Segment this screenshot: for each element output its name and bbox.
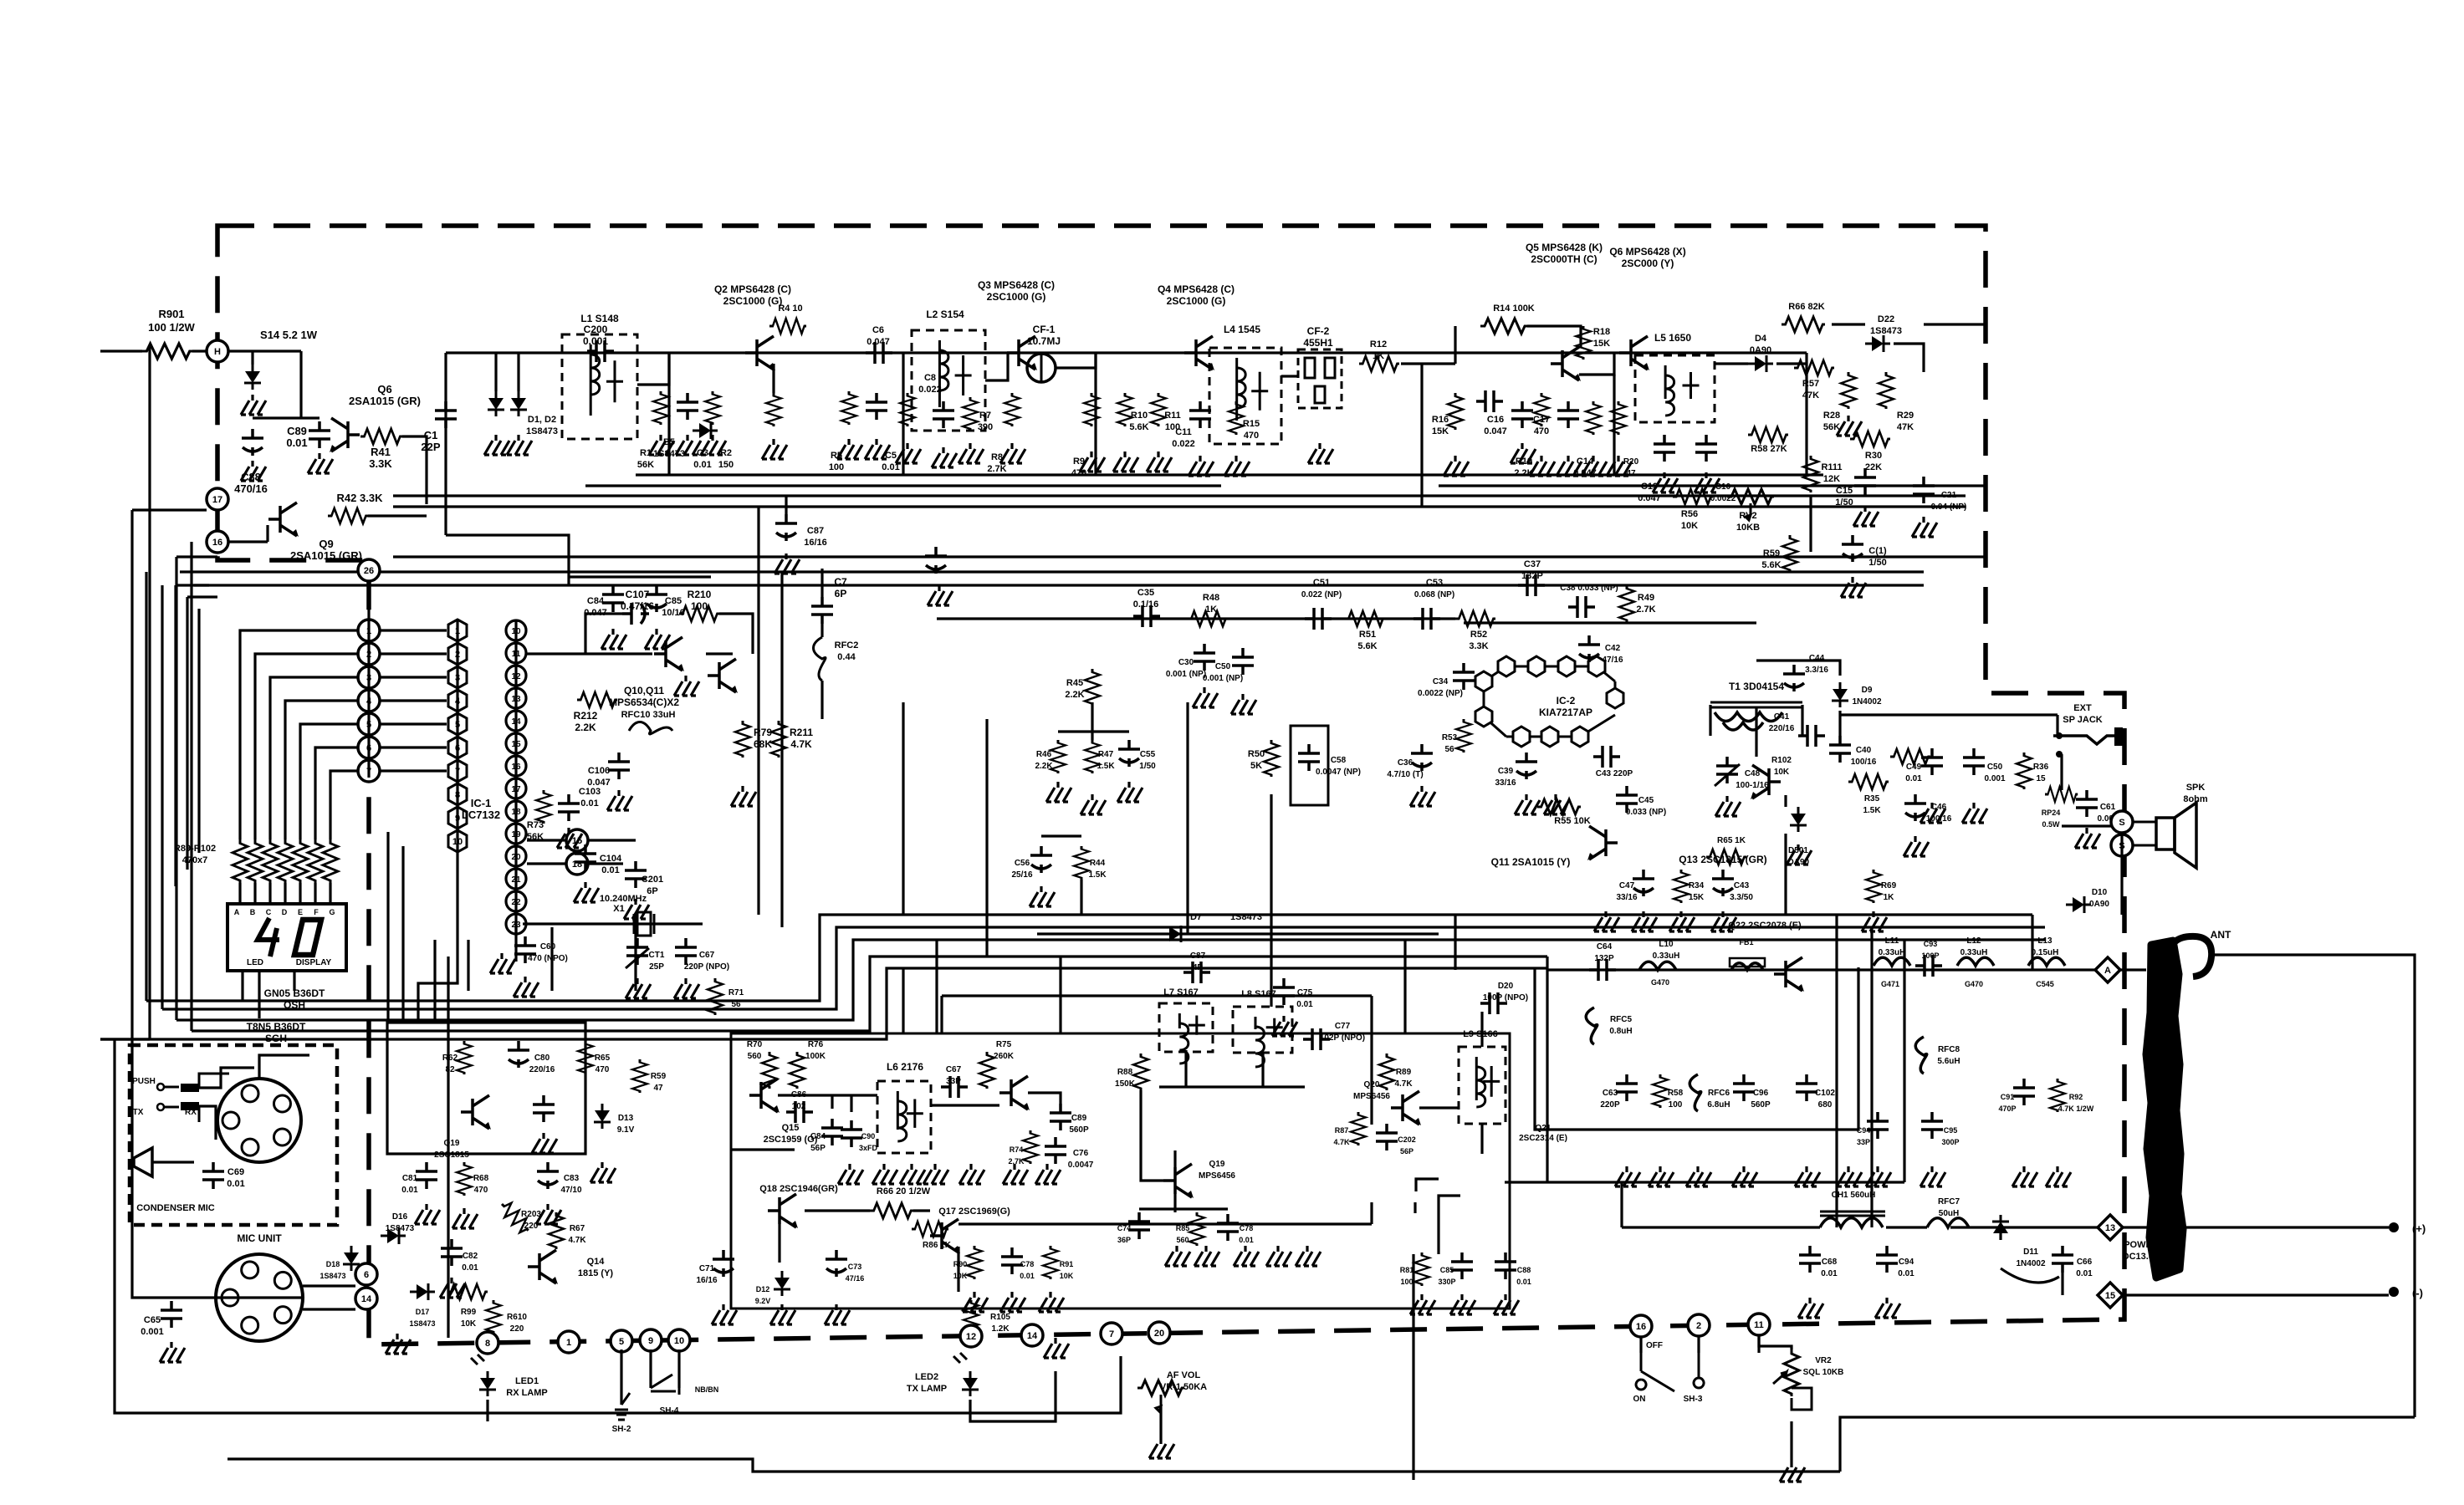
resistor R28 56K: [1841, 372, 1856, 409]
ground: [1000, 1292, 1025, 1312]
resistor R62 82: [457, 1041, 472, 1074]
resistor R105 1.2K: [964, 1300, 979, 1334]
svg-text:47: 47: [653, 1084, 663, 1093]
wire R95 to display: [329, 883, 331, 904]
connector pin 9 on bottom bus: [640, 1329, 662, 1351]
transistor Q3 2SC1000: [1007, 336, 1037, 370]
diode D7 1S8473: [1163, 926, 1188, 942]
connector pin 10 on bottom bus: [668, 1329, 690, 1351]
svg-text:47/16: 47/16: [1602, 656, 1623, 665]
mic connector radio side (5 pin): [216, 1254, 303, 1341]
IC U1 pin 15: [506, 620, 526, 640]
ground: [1557, 456, 1582, 476]
svg-text:C37: C37: [1524, 559, 1541, 569]
capacitor C64b 132P: [1589, 959, 1616, 981]
ceramic filter CF-2 455kHz: [1298, 349, 1342, 408]
svg-text:25/16: 25/16: [1011, 870, 1032, 880]
capacitor C67 220P: [675, 938, 697, 965]
resistor R66 82K: [1782, 317, 1825, 332]
wire stair to TX: [468, 915, 636, 991]
svg-text:R51: R51: [1359, 630, 1376, 640]
svg-text:R5: R5: [831, 451, 842, 461]
svg-text:4.7K: 4.7K: [790, 738, 812, 750]
wire c84 rail: [569, 575, 711, 578]
resistor R48 1K: [1188, 611, 1228, 626]
wire mic internal: [152, 1055, 309, 1162]
resistor R91 470: [263, 839, 278, 883]
ground: [712, 1304, 737, 1324]
wire d11 bottom: [2001, 1227, 2063, 1295]
box around C58: [1291, 726, 1328, 805]
svg-text:0.001: 0.001: [1984, 774, 2005, 783]
connector pin 3 (wire header): [358, 666, 380, 688]
svg-text:SPK: SPK: [2186, 783, 2206, 793]
capacitor C73 47/16: [826, 1250, 847, 1277]
trimmer CT1: [626, 938, 648, 965]
transistor Q14 1815(Y): [528, 1250, 558, 1284]
ground: [1081, 794, 1106, 814]
capacitor C106 0.047: [608, 752, 630, 779]
wire pin2 link: [380, 652, 447, 655]
capacitor C7 6P: [811, 597, 833, 624]
capacitor C60 470(NPO): [514, 936, 536, 963]
resistor R93 470: [293, 839, 308, 883]
svg-text:R79: R79: [754, 727, 772, 738]
wire ant feed: [2119, 968, 2146, 971]
svg-text:470: 470: [1244, 431, 1259, 441]
svg-text:0.022: 0.022: [918, 385, 942, 395]
svg-text:SH-2: SH-2: [612, 1425, 631, 1434]
wire pin1 link: [380, 629, 447, 631]
ground VR1: [1149, 1438, 1174, 1458]
capacitor C77 102P: [1303, 1028, 1330, 1050]
ground near led2: [1044, 1338, 1069, 1358]
IF transformer L2 S154: [912, 330, 985, 431]
svg-text:R68: R68: [473, 1174, 489, 1183]
svg-text:10.7MJ: 10.7MJ: [1027, 335, 1061, 347]
svg-text:5.6K: 5.6K: [1761, 560, 1781, 570]
IC U2 KIA7217AP outline: [1484, 666, 1615, 737]
svg-text:C50: C50: [1215, 662, 1231, 671]
svg-text:R19: R19: [1516, 457, 1532, 467]
svg-text:220: 220: [510, 1324, 524, 1334]
svg-text:R102: R102: [1771, 756, 1792, 765]
svg-text:C78: C78: [1020, 1260, 1035, 1268]
svg-text:(-): (-): [2412, 1287, 2423, 1299]
svg-text:2SC1000 (G): 2SC1000 (G): [723, 295, 783, 307]
wire R42 right: [368, 514, 427, 517]
svg-text:R73: R73: [527, 820, 544, 830]
wire pin6 link: [380, 746, 447, 748]
capacitor C102 680: [1796, 1074, 1817, 1101]
svg-text:R57: R57: [1802, 379, 1819, 389]
svg-text:455H1: 455H1: [1303, 337, 1333, 349]
resistor R212 2.2K: [577, 692, 617, 707]
wire tx q19 net: [1139, 1090, 1228, 1212]
svg-text:56: 56: [731, 1000, 741, 1009]
connector pin 26: [358, 559, 380, 581]
resistor R90 470: [248, 839, 263, 883]
svg-text:R12: R12: [1370, 339, 1387, 349]
wire R111 drop: [1809, 495, 1812, 552]
svg-text:C94: C94: [1899, 1258, 1914, 1267]
svg-text:14: 14: [361, 1294, 372, 1304]
capacitor C14: [1557, 401, 1579, 428]
wire q16 wires: [780, 1211, 959, 1292]
ground tx mid 1563: [1296, 1246, 1321, 1266]
svg-text:1S8473: 1S8473: [1870, 326, 1902, 336]
ground: [590, 1162, 616, 1182]
svg-text:R8: R8: [991, 452, 1003, 462]
IC U1 pin 19: [506, 711, 526, 731]
resistor R41 3.3K: [360, 429, 402, 444]
svg-text:102P (NPO): 102P (NPO): [1320, 1033, 1365, 1043]
svg-text:C88: C88: [1517, 1266, 1531, 1274]
svg-text:12: 12: [966, 1332, 976, 1342]
resistor R65 1K: [1706, 849, 1746, 865]
wire pin7 link: [380, 769, 447, 772]
diode D9 1N4002: [1832, 682, 1848, 707]
svg-text:0.068 (NP): 0.068 (NP): [1414, 590, 1454, 599]
connector pin 13 power +: [2098, 1215, 2123, 1240]
svg-text:33P: 33P: [1857, 1138, 1870, 1146]
rf choke RFC8: [1915, 1037, 1927, 1074]
capacitor C36 4.7/16: [1411, 744, 1433, 771]
svg-text:R52: R52: [1470, 630, 1487, 640]
wire left rail 7: [115, 1039, 1121, 1413]
svg-text:R20: R20: [1623, 457, 1639, 467]
wire tx2 rail: [1547, 968, 2108, 971]
capacitor C75b 0.01: [1217, 1214, 1239, 1241]
capacitor C83b 3xFD: [841, 1120, 862, 1147]
svg-text:0.33uH: 0.33uH: [1879, 948, 1906, 957]
ground tx left 1252: [1035, 1164, 1061, 1184]
ground: [1841, 577, 1866, 597]
svg-text:3.3/16: 3.3/16: [1805, 666, 1828, 675]
svg-text:470: 470: [474, 1186, 488, 1195]
resistor R34 15K: [1674, 870, 1689, 903]
resistor R5: [841, 391, 856, 425]
rf choke RFC10: [629, 722, 672, 735]
svg-text:C42: C42: [1605, 644, 1621, 653]
svg-text:100P (NPO): 100P (NPO): [1483, 993, 1528, 1002]
wire display segment B: [255, 654, 358, 839]
ground: [1962, 803, 1987, 823]
svg-text:C15: C15: [1836, 486, 1853, 496]
resistor R210 100: [679, 606, 719, 621]
wire driver box: [1535, 967, 1858, 1130]
svg-text:102: 102: [792, 1102, 806, 1111]
svg-text:SQL 10KB: SQL 10KB: [1803, 1368, 1844, 1377]
capacitor C53 0.068(NP): [1413, 608, 1440, 630]
IC U1 pin 22: [506, 778, 526, 798]
ground: [532, 1133, 557, 1153]
connector pin 7 on bottom bus: [1101, 1323, 1122, 1344]
ground: [2075, 828, 2100, 848]
capacitor C75 0.01: [1273, 978, 1295, 1005]
svg-text:RX: RX: [185, 1108, 197, 1117]
transistor Q11 MPS6534: [708, 659, 738, 693]
svg-text:1: 1: [566, 1338, 571, 1348]
svg-text:33/16: 33/16: [1616, 893, 1637, 902]
svg-text:2SA1015 (GR): 2SA1015 (GR): [290, 549, 362, 562]
svg-text:300P: 300P: [1941, 1138, 1959, 1146]
connector pin 5 (wire header): [358, 713, 380, 735]
wire R93 to display: [299, 883, 301, 904]
ground: [825, 1304, 850, 1324]
svg-text:R53: R53: [1442, 733, 1458, 742]
switch SH-3 OFF/ON: [1636, 1353, 1704, 1391]
wire L1 out: [637, 353, 669, 385]
svg-text:R7: R7: [979, 411, 991, 421]
capacitor C85 10/16: [646, 585, 667, 612]
svg-text:C66: C66: [2077, 1258, 2093, 1267]
wire bus B3: [393, 555, 1986, 558]
svg-text:0.01: 0.01: [1020, 1272, 1035, 1280]
IF transformer L9 S166: [1459, 1047, 1505, 1124]
ground txdrv 2030: [1686, 1166, 1711, 1186]
svg-text:C68: C68: [1822, 1258, 1838, 1267]
ground tx left 1161: [959, 1164, 984, 1184]
transistor Q12: [1751, 765, 1781, 799]
connector pin 15 power -: [2098, 1283, 2123, 1308]
wire C107 loop: [585, 614, 753, 654]
svg-text:C38 0.033 (NP): C38 0.033 (NP): [1560, 584, 1618, 593]
svg-text:POWER: POWER: [2124, 1240, 2159, 1250]
svg-text:2.7K: 2.7K: [987, 464, 1006, 474]
svg-text:5K: 5K: [1250, 761, 1262, 771]
svg-text:10.240MHz: 10.240MHz: [600, 894, 647, 904]
svg-text:C71: C71: [699, 1264, 715, 1273]
svg-text:OFF: OFF: [1646, 1341, 1663, 1350]
resistor R14 100K: [1480, 319, 1527, 334]
svg-text:NB/BN: NB/BN: [695, 1385, 719, 1394]
ground: [2012, 1166, 2037, 1186]
svg-text:Q4 MPS6428 (C): Q4 MPS6428 (C): [1158, 283, 1235, 295]
svg-text:220P (NPO): 220P (NPO): [684, 962, 729, 972]
diode D4 0A90: [1748, 355, 1773, 372]
svg-text:1S8473: 1S8473: [1230, 912, 1262, 922]
IC U1 pin 9 (hex): [448, 807, 467, 829]
svg-text:R65: R65: [595, 1053, 611, 1063]
ground: [1787, 844, 1812, 865]
svg-text:1N4002: 1N4002: [1852, 697, 1881, 707]
svg-text:R41: R41: [371, 446, 391, 458]
svg-text:EXT: EXT: [2073, 703, 2092, 713]
svg-text:9: 9: [648, 1336, 653, 1346]
svg-text:100/16: 100/16: [1851, 758, 1877, 767]
svg-text:100: 100: [829, 462, 844, 472]
svg-text:Q11 2SA1015 (Y): Q11 2SA1015 (Y): [1491, 856, 1571, 868]
svg-text:D20: D20: [1498, 982, 1514, 991]
diode D16 1S8473: [381, 1227, 406, 1244]
ground: [624, 899, 649, 919]
ground: [607, 790, 632, 810]
resistor R610 220: [486, 1300, 501, 1334]
svg-text:D12: D12: [756, 1285, 770, 1293]
svg-text:SP JACK: SP JACK: [2063, 715, 2103, 725]
svg-text:TX: TX: [133, 1108, 144, 1117]
capacitor C111 1/50: [1842, 535, 1863, 562]
svg-text:C80: C80: [534, 1053, 550, 1063]
IC U1 pin 8 (hex): [448, 783, 467, 805]
wire R14 span: [1455, 326, 1581, 364]
svg-text:Q6 MPS6428 (X): Q6 MPS6428 (X): [1609, 246, 1685, 258]
capacitor C47 33/16: [1633, 870, 1654, 896]
svg-text:C83: C83: [564, 1174, 580, 1183]
wire R92 to display: [284, 883, 286, 904]
svg-text:R42 3.3K: R42 3.3K: [337, 492, 384, 504]
capacitor C41 220/16: [1798, 725, 1825, 747]
svg-text:C48: C48: [1745, 769, 1761, 778]
potentiometer VR2 SQL 10KB: [1784, 1349, 1799, 1396]
svg-text:2.7K: 2.7K: [1636, 605, 1655, 615]
svg-text:0.0022 (NP): 0.0022 (NP): [1418, 689, 1463, 698]
IC U2 pin 10: [1607, 688, 1623, 708]
wire main RF line: [446, 351, 1807, 354]
svg-text:R46: R46: [1036, 750, 1052, 759]
wire pll right link: [527, 652, 652, 655]
wire pin5 link: [380, 722, 447, 725]
svg-text:D22: D22: [1878, 314, 1894, 324]
capacitor C200 0.001: [587, 340, 614, 362]
resistor R74 2.7K: [1023, 1130, 1038, 1164]
ground: [1231, 694, 1256, 714]
svg-text:0.15uH: 0.15uH: [2032, 948, 2059, 957]
svg-text:VR2: VR2: [1815, 1356, 1832, 1365]
connector pin 18 (pll out): [566, 853, 588, 875]
svg-text:TX LAMP: TX LAMP: [907, 1384, 947, 1394]
svg-text:Q10,Q11: Q10,Q11: [624, 685, 664, 696]
IC U1 pin 5 (hex): [448, 713, 467, 735]
connector pin 2 (wire header): [358, 643, 380, 665]
capacitor D20 100P: [1480, 992, 1507, 1014]
ground: [1444, 456, 1469, 476]
svg-text:C95: C95: [1944, 1126, 1958, 1135]
svg-text:2SC000TH (C): 2SC000TH (C): [1531, 253, 1597, 265]
svg-text:B5: B5: [663, 437, 675, 447]
resistor R87 4.7K: [1351, 1112, 1366, 1145]
transistor Q17 2SC1969: [930, 1219, 960, 1253]
svg-text:L1 S148: L1 S148: [580, 313, 619, 324]
svg-text:10K: 10K: [1060, 1272, 1074, 1280]
svg-text:C: C: [266, 908, 272, 916]
svg-text:C202: C202: [1398, 1135, 1416, 1144]
svg-text:470P: 470P: [1998, 1105, 2016, 1113]
resistor R12 1K: [1359, 356, 1399, 371]
svg-text:1K: 1K: [1205, 605, 1217, 615]
svg-text:C8: C8: [924, 373, 936, 383]
svg-text:1K: 1K: [1373, 351, 1384, 361]
capacitor C104 0.01: [575, 844, 596, 871]
ground: [963, 1292, 988, 1312]
svg-text:R30: R30: [1865, 451, 1882, 461]
svg-text:RFC7: RFC7: [1938, 1197, 1960, 1207]
svg-text:C64: C64: [1597, 942, 1613, 951]
resistor R52 3.3K: [1455, 611, 1495, 626]
wire drop q5: [1613, 375, 1615, 475]
resistor R58 27K: [1748, 427, 1788, 442]
wire tx mid box: [942, 996, 1372, 1125]
ground: [1711, 911, 1736, 931]
svg-text:C47: C47: [1619, 881, 1635, 890]
IC U1 pin 18: [506, 688, 526, 708]
svg-text:C85: C85: [665, 596, 682, 606]
connector pin 16: [207, 531, 228, 553]
capacitor C8 0.022: [933, 401, 954, 428]
ground CF-2: [1308, 443, 1333, 463]
capacitor C56 25/16: [1030, 846, 1052, 873]
ground: [1272, 1016, 1297, 1036]
svg-text:10: 10: [674, 1336, 684, 1346]
resistor R90 10K: [967, 1246, 982, 1279]
capacitor C1 22P: [435, 401, 457, 428]
ground: [440, 1278, 465, 1298]
IC U1 pin 21: [506, 756, 526, 776]
svg-text:3.3K: 3.3K: [1469, 641, 1488, 651]
svg-text:C10: C10: [1715, 482, 1731, 492]
ground: [1920, 1166, 1945, 1186]
resistor R79 68K: [735, 721, 750, 758]
ground: [649, 435, 674, 455]
IC U1 pin 6 (hex): [448, 737, 467, 758]
connector pin 14 on bottom bus: [1021, 1324, 1043, 1346]
svg-text:D4: D4: [1755, 334, 1767, 344]
resistor R92 4.7K: [2050, 1079, 2065, 1112]
capacitor C82 0.01: [441, 1239, 463, 1266]
connector pin 1 on bottom bus: [558, 1331, 580, 1353]
capacitor C43 220P: [1593, 746, 1620, 768]
resistor R85 560: [1189, 1212, 1204, 1246]
ground: [626, 978, 651, 998]
svg-text:C60: C60: [540, 942, 556, 951]
svg-text:L10: L10: [1659, 940, 1674, 949]
svg-text:3xFD: 3xFD: [859, 1144, 878, 1152]
crystal X1 10.240MHz: [626, 912, 662, 936]
capacitor C34 0.0022: [1453, 663, 1475, 690]
wire right return vertical: [2215, 955, 2415, 1417]
ground: [676, 435, 701, 455]
svg-text:R89: R89: [1396, 1068, 1412, 1077]
transistor Q6 2SA1015: [330, 418, 360, 452]
svg-text:33P: 33P: [946, 1077, 961, 1086]
resistor R6: [900, 393, 915, 426]
svg-text:1S8473: 1S8473: [386, 1224, 415, 1233]
transformer T1 3D04154: [1710, 702, 1802, 730]
svg-text:C40: C40: [1856, 746, 1872, 755]
wire sw drop: [1641, 1334, 1759, 1353]
capacitor C71 16/16: [713, 1250, 734, 1277]
svg-text:R16: R16: [1432, 415, 1449, 425]
svg-text:R81: R81: [1400, 1266, 1414, 1274]
ground tx mid 1489: [1234, 1246, 1259, 1266]
resistor R89 470: [233, 839, 248, 883]
svg-text:5.6uH: 5.6uH: [1937, 1057, 1960, 1066]
capacitor C85c 330P: [1451, 1252, 1473, 1279]
svg-text:17: 17: [212, 495, 222, 505]
svg-text:0.5W: 0.5W: [2042, 820, 2060, 829]
wire tx right drop: [1413, 1196, 1460, 1480]
wire display segment G: [330, 771, 358, 839]
ground: [1632, 911, 1657, 931]
svg-text:C43: C43: [1734, 881, 1750, 890]
resistor R66b 20 1/2W: [870, 1203, 913, 1218]
wire Q1 collector: [772, 364, 774, 393]
wire bus C2: [162, 927, 2045, 1009]
connector pin 11 on bottom bus: [1748, 1314, 1770, 1335]
svg-text:R212: R212: [574, 710, 598, 722]
capacitor C55 1/50: [1118, 740, 1140, 767]
